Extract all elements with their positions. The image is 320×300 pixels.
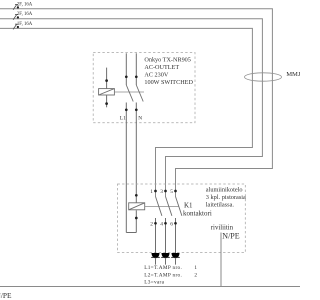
junction dot coil top xyxy=(105,79,108,82)
contactor K1 coil wire xyxy=(135,210,137,232)
svg-text:3: 3 xyxy=(160,189,163,195)
svg-text:N/PE: N/PE xyxy=(222,232,239,241)
Onkyo dashed enclosure box xyxy=(93,53,195,123)
svg-text:AC-OUTLET: AC-OUTLET xyxy=(144,64,179,71)
svg-text:K1: K1 xyxy=(184,201,193,209)
svg-text:kontaktori: kontaktori xyxy=(183,210,212,218)
relay coil (Onkyo internal) wire xyxy=(106,68,108,108)
cable marker ellipse MMJ xyxy=(245,73,282,81)
svg-text:1F, 16A: 1F, 16A xyxy=(17,22,33,27)
svg-text:2: 2 xyxy=(150,222,153,228)
svg-text:L3=vara: L3=vara xyxy=(144,280,164,286)
svg-text:AC 230V: AC 230V xyxy=(144,72,168,79)
svg-text:5: 5 xyxy=(170,189,173,195)
svg-text:3 kpl. pistorasia: 3 kpl. pistorasia xyxy=(206,194,246,201)
fuse F1 xyxy=(13,2,33,9)
fuse F2 xyxy=(13,12,33,20)
aluminium enclosure dashed box xyxy=(118,184,246,253)
relay contact N (Onkyo) xyxy=(135,53,143,203)
svg-text:alumiinikotelo: alumiinikotelo xyxy=(206,187,243,194)
relay linkage line xyxy=(114,91,144,93)
junction dot coil bottom xyxy=(105,102,108,105)
relay coil rectangle xyxy=(99,89,115,95)
svg-text:N: N xyxy=(138,116,142,122)
svg-text:L1: L1 xyxy=(120,116,126,122)
K1 linkage line xyxy=(145,206,179,208)
N/PE bus line xyxy=(0,286,300,288)
svg-text:4: 4 xyxy=(160,222,163,228)
wire L2 phase feed second line xyxy=(0,19,262,197)
K1 contact pole 5-6 xyxy=(170,189,182,253)
wire riviliitin to N/PE bus xyxy=(220,233,222,287)
svg-text:100W SWITCHED: 100W SWITCHED xyxy=(144,79,193,86)
svg-text:N/PE: N/PE xyxy=(0,291,12,300)
fuse F3 xyxy=(13,22,33,30)
K1 coil rectangle xyxy=(129,203,145,210)
wire coil return to L1 xyxy=(126,232,136,234)
svg-text:Onkyo TX-NR905: Onkyo TX-NR905 xyxy=(144,57,190,64)
wire L3 phase feed third line xyxy=(0,28,252,196)
svg-text:1: 1 xyxy=(150,189,153,195)
socket outlet symbol 1 xyxy=(151,253,160,265)
junction dot K1 coil bottom xyxy=(135,217,138,220)
wire L1 phase feed top line xyxy=(0,9,272,197)
svg-text:laitetilassa.: laitetilassa. xyxy=(206,202,235,209)
svg-text:MMJ: MMJ xyxy=(286,71,300,78)
svg-text:6: 6 xyxy=(170,222,173,228)
K1 contact pole 3-4 xyxy=(160,189,172,253)
K1 contact pole 1-2 xyxy=(150,189,162,253)
socket outlet symbol 2 xyxy=(161,253,170,265)
junction dot K1 coil top xyxy=(135,194,138,197)
socket outlet symbol 3 xyxy=(171,253,180,265)
svg-text:2F, 16A: 2F, 16A xyxy=(17,12,33,17)
relay contact L1 (Onkyo) xyxy=(125,53,133,232)
svg-text:2F, 16A: 2F, 16A xyxy=(17,2,33,7)
